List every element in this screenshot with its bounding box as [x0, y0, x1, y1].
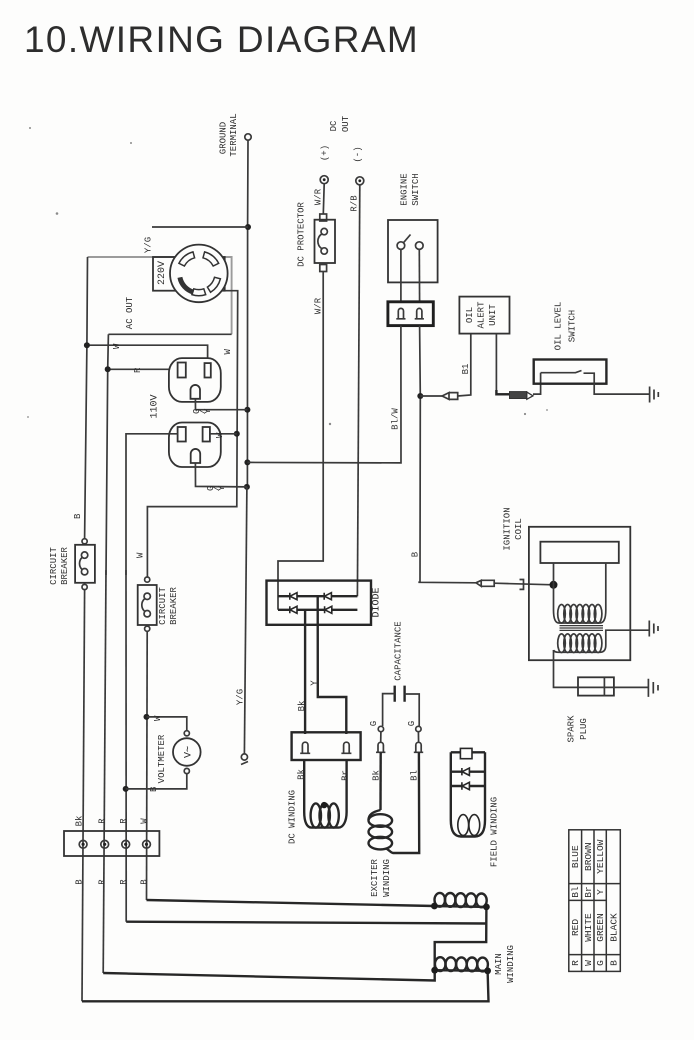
svg-text:ENGINE: ENGINE [400, 173, 410, 205]
svg-text:BREAKER: BREAKER [169, 587, 179, 625]
svg-text:(+): (+) [320, 145, 330, 161]
svg-text:G: G [369, 721, 379, 726]
svg-text:R: R [119, 818, 129, 824]
svg-text:GROUND: GROUND [219, 122, 229, 154]
svg-text:IGNITION: IGNITION [503, 507, 513, 550]
svg-text:10.WIRING DIAGRAM: 10.WIRING DIAGRAM [24, 19, 419, 60]
svg-text:AC OUT: AC OUT [125, 296, 135, 329]
svg-text:BLUE: BLUE [570, 845, 581, 868]
svg-text:CIRCUIT: CIRCUIT [49, 547, 59, 585]
svg-text:FIELD WINDING: FIELD WINDING [490, 797, 500, 867]
svg-text:V∼: V∼ [183, 746, 194, 758]
svg-text:Bk: Bk [297, 769, 307, 780]
svg-text:DC: DC [329, 120, 339, 131]
svg-text:R: R [98, 879, 108, 885]
svg-text:WHITE: WHITE [583, 913, 594, 942]
svg-text:VOLTMETER: VOLTMETER [157, 734, 167, 783]
svg-text:GREEN: GREEN [595, 913, 606, 942]
svg-text:B: B [608, 960, 619, 966]
svg-text:TERMINAL: TERMINAL [229, 113, 239, 156]
svg-text:B: B [75, 879, 85, 885]
svg-text:COIL: COIL [514, 518, 524, 540]
svg-text:G: G [595, 960, 606, 966]
svg-text:DC PROTECTOR: DC PROTECTOR [297, 201, 307, 266]
svg-text:MAIN: MAIN [494, 953, 504, 975]
svg-text:W/R: W/R [314, 188, 324, 205]
svg-text:ALERT: ALERT [477, 301, 487, 329]
svg-text:B: B [73, 513, 83, 519]
svg-text:R: R [119, 879, 129, 885]
svg-text:W: W [140, 818, 150, 824]
svg-text:PLUG: PLUG [579, 718, 589, 740]
svg-text:W: W [153, 715, 163, 721]
svg-text:OIL: OIL [465, 307, 475, 323]
svg-text:OIL LEVEL: OIL LEVEL [554, 302, 564, 351]
svg-text:WINDING: WINDING [506, 945, 516, 983]
svg-text:R/B: R/B [350, 195, 360, 212]
svg-text:W: W [136, 552, 146, 558]
svg-text:CIRCUIT: CIRCUIT [158, 587, 168, 625]
svg-text:BREAKER: BREAKER [60, 547, 70, 585]
svg-text:R: R [98, 818, 108, 824]
svg-text:OUT: OUT [341, 115, 351, 132]
svg-text:BLACK: BLACK [608, 913, 619, 942]
svg-text:Bl: Bl [570, 886, 581, 898]
svg-text:B: B [140, 879, 150, 885]
svg-text:YELLOW: YELLOW [595, 839, 606, 874]
svg-text:DIODE: DIODE [372, 587, 383, 617]
svg-text:DC WINDING: DC WINDING [288, 790, 298, 844]
svg-text:B: B [149, 786, 159, 792]
svg-text:Br: Br [341, 770, 351, 781]
svg-text:G/Y: G/Y [206, 485, 227, 491]
svg-text:W: W [223, 349, 233, 355]
svg-text:EXCITER: EXCITER [370, 859, 380, 897]
svg-text:SWITCH: SWITCH [411, 173, 421, 205]
svg-text:220V: 220V [157, 261, 168, 285]
svg-text:W: W [112, 343, 122, 349]
svg-text:UNIT: UNIT [488, 304, 498, 326]
svg-text:Bk: Bk [372, 770, 382, 781]
svg-text:Bl/W: Bl/W [391, 408, 401, 430]
svg-text:W/R: W/R [314, 297, 324, 314]
svg-text:B1: B1 [461, 364, 471, 375]
svg-text:B: B [411, 551, 421, 557]
svg-text:SPARK: SPARK [567, 715, 577, 743]
svg-text:R: R [133, 367, 143, 373]
svg-text:110V: 110V [150, 394, 161, 418]
svg-text:Bk: Bk [297, 701, 307, 712]
svg-text:R: R [570, 960, 581, 966]
svg-text:Y: Y [595, 889, 606, 895]
svg-text:G/Y: G/Y [192, 408, 213, 414]
svg-text:RED: RED [570, 919, 581, 936]
svg-text:Y/G: Y/G [144, 237, 154, 253]
svg-text:Bk: Bk [75, 816, 85, 827]
svg-text:Br: Br [583, 886, 594, 897]
svg-text:Y/G: Y/G [236, 689, 246, 705]
svg-text:(-): (-) [353, 146, 363, 162]
svg-text:BROWN: BROWN [583, 842, 594, 871]
svg-text:W: W [583, 960, 594, 966]
svg-text:Y: Y [310, 680, 320, 686]
svg-text:W: W [215, 432, 225, 438]
svg-text:Bl: Bl [410, 770, 420, 781]
svg-text:G: G [407, 721, 417, 726]
svg-text:SWITCH: SWITCH [568, 310, 578, 342]
svg-text:CAPACITANCE: CAPACITANCE [394, 621, 404, 680]
svg-text:WINDING: WINDING [382, 859, 392, 897]
